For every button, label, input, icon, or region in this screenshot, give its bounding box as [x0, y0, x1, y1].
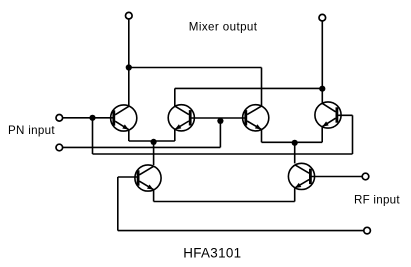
wire Q5 emitter drop [153, 190, 155, 202]
wire RF- bottom rail [118, 230, 364, 232]
wire PN- riser to base link [219, 119, 221, 148]
terminal RF input plus [362, 173, 369, 180]
wire output B rail [175, 87, 322, 89]
wire Q6 emitter riser [294, 188, 296, 201]
wire common emitter rail [154, 201, 295, 203]
transistor Q1 [111, 105, 137, 131]
wire PN+ riser to Q4 base [352, 115, 354, 154]
junction node right emitter pair [292, 140, 298, 146]
terminal mixer output B [319, 14, 326, 21]
wire PN+ cross rail [93, 153, 353, 155]
wire Q4 emitter drop [321, 127, 323, 143]
terminal mixer output A [126, 12, 133, 19]
svg-text:HFA3101: HFA3101 [183, 246, 241, 261]
junction node output A [126, 64, 132, 70]
wire left emitter rail [129, 140, 175, 142]
transistor Q6 [288, 163, 314, 189]
wire output A drop to Q3 collector [261, 68, 263, 107]
transistor Q4 [315, 102, 341, 128]
terminal PN input minus [56, 144, 63, 151]
wire Q6 base to RF terminal [311, 176, 362, 178]
wire Q3 emitter drop [261, 130, 263, 143]
wire right emitter rail [262, 141, 323, 143]
transistor Q2 [168, 105, 194, 131]
wire Q2 collector riser [174, 88, 176, 106]
wire Q6 collector riser [294, 142, 296, 163]
wire Q2-Q3 base link [190, 117, 246, 119]
terminal PN input plus [56, 115, 63, 122]
wire Q5 collector riser [153, 141, 155, 165]
wire Q5 base lead [118, 176, 139, 178]
wire Q4 base lead [336, 114, 352, 116]
junction node PN+ [89, 115, 95, 121]
wire PN+ drop [92, 118, 94, 154]
junction node output B [319, 86, 325, 92]
wire collector Q4 to output terminal [321, 21, 323, 103]
svg-text:PN input: PN input [8, 124, 55, 137]
junction node left emitter pair [151, 139, 157, 145]
transistor Q3 [243, 105, 269, 131]
svg-text:Mixer output: Mixer output [189, 20, 258, 33]
transistor Q5 [135, 165, 161, 191]
wire PN- rail [63, 146, 221, 148]
svg-text:RF input: RF input [354, 194, 400, 207]
wire output A rail [129, 67, 262, 69]
wire Q1 emitter drop [128, 130, 130, 141]
wire Q2 emitter drop [174, 130, 176, 142]
wire collector Q1 to output terminal [128, 19, 130, 106]
wire PN+ to Q1 base [63, 117, 114, 119]
wire Q5 base drop [117, 177, 119, 231]
junction node PN- tap [217, 118, 223, 124]
terminal RF input minus [364, 227, 371, 234]
